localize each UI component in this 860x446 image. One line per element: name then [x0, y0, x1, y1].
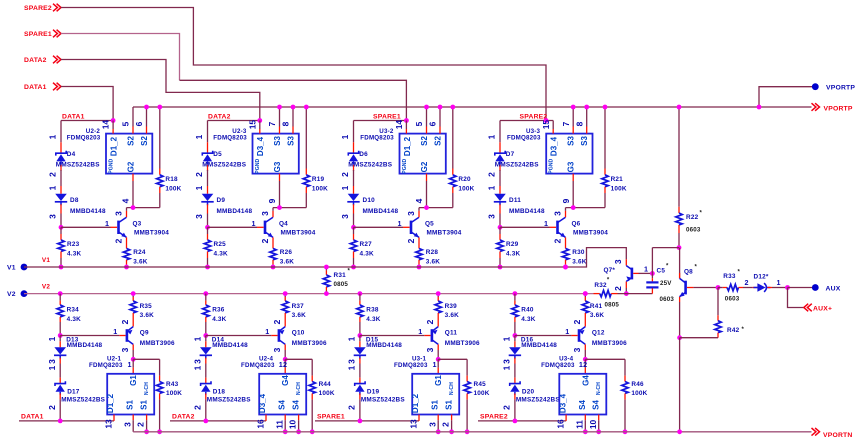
svg-text:3: 3 — [47, 359, 57, 364]
junction AUX node — [785, 285, 790, 290]
svg-text:Q5: Q5 — [425, 220, 434, 227]
svg-text:PGND: PGND — [255, 158, 261, 173]
junction gate node — [571, 205, 576, 210]
wire base (bottom) — [571, 335, 577, 337]
pin 9 of U2-3 (G) — [279, 174, 281, 208]
svg-text:4.3K: 4.3K — [506, 250, 520, 257]
svg-text:R28: R28 — [426, 249, 439, 256]
resistor R30 3.6K — [562, 237, 568, 267]
resistor R39 3.6K — [435, 294, 441, 327]
svg-text:1: 1 — [193, 336, 203, 341]
wire V1 step to Q7 collector — [566, 248, 627, 267]
junction gate node (bottom) — [283, 357, 288, 362]
svg-text:D9: D9 — [217, 197, 226, 204]
svg-text:AUX+: AUX+ — [813, 306, 832, 313]
svg-text:DATA1: DATA1 — [62, 113, 85, 120]
svg-text:*: * — [700, 211, 703, 217]
resistor R19 100K — [303, 107, 309, 208]
wire VPORTP riser to port dot — [759, 87, 815, 107]
junction bottom net/rail — [513, 419, 518, 424]
svg-text:S2: S2 — [140, 136, 149, 146]
svg-text:S2: S2 — [420, 136, 429, 146]
junction VPORTN bus/S pin — [583, 429, 588, 434]
junction V1 rail (emitter leg) — [417, 265, 422, 270]
svg-text:MMSZ5242BS: MMSZ5242BS — [56, 162, 100, 169]
svg-text:3: 3 — [502, 359, 512, 364]
junction bottom net/rail — [358, 419, 363, 424]
pin 16 of U2-4 (D) — [265, 415, 267, 421]
svg-text:4.3K: 4.3K — [67, 316, 81, 323]
svg-text:MMBD4148: MMBD4148 — [70, 208, 106, 215]
transistor Q10 (MMBT3906 PNP) — [279, 327, 285, 345]
junction emitter/R42 — [677, 335, 682, 340]
junction Q7 emitter/V2 — [624, 291, 629, 296]
svg-text:PGND: PGND — [108, 158, 114, 173]
svg-text:FDMQ8203: FDMQ8203 — [213, 135, 247, 142]
svg-text:R27: R27 — [360, 241, 373, 248]
svg-text:13: 13 — [408, 419, 418, 429]
svg-text:2: 2 — [136, 422, 146, 427]
svg-text:2: 2 — [340, 172, 350, 177]
transistor Q3 (MMBT3904 NPN) — [119, 217, 127, 237]
junction V1 rail (emitter leg) — [124, 265, 129, 270]
svg-text:R43: R43 — [166, 381, 179, 388]
wire Q7 base to C5 node — [633, 272, 638, 274]
junction bus/100K — [603, 105, 608, 110]
wire rail upper segment — [499, 121, 501, 143]
junction bus/S pin 2 — [584, 105, 589, 110]
svg-text:2: 2 — [194, 172, 204, 177]
svg-text:1: 1 — [502, 336, 512, 341]
svg-text:R34: R34 — [67, 307, 80, 314]
junction gate node (bottom) — [436, 357, 441, 362]
svg-text:1: 1 — [347, 365, 357, 370]
wire base — [354, 226, 404, 228]
zener diode D5 (MMSZ5242BS) — [202, 142, 212, 171]
svg-text:MMBT3904: MMBT3904 — [281, 230, 316, 237]
svg-text:*: * — [695, 265, 698, 271]
junction V2/4.3K — [58, 291, 63, 296]
svg-text:2: 2 — [260, 238, 270, 243]
svg-text:MMBD4148: MMBD4148 — [217, 208, 253, 215]
svg-text:R42: R42 — [727, 327, 740, 334]
junction gate node — [131, 205, 136, 210]
junction V2/3.6K — [583, 291, 588, 296]
wire gate node horizontal (bottom) — [133, 358, 159, 360]
pin 6 of U3-2 (S) — [439, 107, 441, 134]
svg-text:G1: G1 — [129, 375, 138, 386]
svg-text:1: 1 — [777, 278, 781, 287]
svg-text:MMBD4148: MMBD4148 — [509, 208, 545, 215]
junction bottom net/rail — [203, 419, 208, 424]
wire bottom net — [19, 420, 114, 422]
svg-text:R44: R44 — [319, 381, 332, 388]
wire gate node — [127, 207, 160, 209]
svg-text:1: 1 — [194, 134, 204, 139]
zener diode D4 (MMSZ5242BS) — [56, 142, 66, 171]
wire rail between diodes (bottom) — [59, 364, 61, 378]
svg-text:G2: G2 — [126, 161, 135, 172]
pin 10 of U3-4 (S) — [598, 415, 600, 432]
svg-text:MMBT3904: MMBT3904 — [134, 230, 169, 237]
junction feed — [257, 118, 262, 123]
svg-text:S3: S3 — [286, 136, 295, 146]
svg-text:R33: R33 — [723, 273, 736, 280]
svg-text:R20: R20 — [458, 176, 471, 183]
wire Q8 base to R33 node — [693, 287, 718, 289]
svg-text:D6: D6 — [359, 151, 368, 158]
diode D8 (MMBD4148) — [55, 186, 67, 214]
svg-text:1: 1 — [265, 327, 269, 336]
wire bottom net — [315, 420, 419, 422]
diode D13 (MMBD4148) — [54, 336, 66, 364]
wire collector to gate node (bottom) — [132, 344, 134, 350]
capacitor C5 25V 0603 — [646, 248, 658, 294]
svg-text:4.3K: 4.3K — [521, 316, 535, 323]
svg-text:2: 2 — [487, 172, 497, 177]
svg-text:3: 3 — [340, 214, 350, 219]
transistor Q5 (MMBT3904 NPN) — [411, 217, 419, 237]
wire rail to base junction — [353, 214, 355, 228]
junction bus/100K — [450, 105, 455, 110]
resistor R28 3.6K — [416, 237, 422, 267]
svg-text:R32: R32 — [594, 282, 607, 289]
IC U3-3 (FDMQ8203) — [546, 134, 592, 174]
wire net to pin — [500, 120, 553, 122]
junction VPORTN bus/100K — [465, 429, 470, 434]
wire collector to node — [418, 211, 420, 217]
svg-text:D11: D11 — [509, 197, 521, 204]
svg-text:DATA2: DATA2 — [172, 414, 195, 421]
svg-text:2: 2 — [552, 238, 562, 243]
svg-text:R29: R29 — [506, 241, 519, 248]
svg-text:2: 2 — [272, 319, 282, 324]
svg-text:6: 6 — [134, 121, 144, 126]
junction V1 rail — [498, 265, 503, 270]
wire rail to base junction — [207, 214, 209, 228]
wire gate node — [419, 207, 453, 209]
diode D12 — [753, 283, 788, 292]
svg-text:0603: 0603 — [660, 296, 675, 303]
svg-text:7: 7 — [267, 121, 277, 126]
svg-text:MMSZ5242BS: MMSZ5242BS — [361, 396, 405, 403]
wire Q7 emitter to V2 node — [625, 288, 627, 294]
svg-text:4.3K: 4.3K — [366, 316, 380, 323]
svg-text:*: * — [348, 269, 351, 275]
wire rail between diodes (bottom) — [205, 364, 207, 378]
wire rail upper segment — [60, 121, 62, 143]
svg-text:S4: S4 — [591, 400, 600, 410]
wire rail between diodes (bottom) — [359, 364, 361, 378]
junction feed — [544, 118, 549, 123]
svg-text:3.6K: 3.6K — [572, 258, 586, 265]
svg-text:N-CH: N-CH — [596, 382, 602, 395]
wire gate node horizontal (bottom) — [285, 358, 312, 360]
svg-text:D20: D20 — [522, 389, 535, 396]
svg-text:SPARE2: SPARE2 — [520, 113, 548, 120]
resistor R45 100K — [464, 359, 470, 432]
svg-text:1: 1 — [644, 265, 648, 274]
svg-text:MMBD4148: MMBD4148 — [363, 208, 399, 215]
transistor Q9 (MMBT3906 PNP) — [127, 327, 133, 345]
port V1 (blue dot) — [21, 264, 28, 271]
wire rail to base junction — [499, 214, 501, 228]
port AUX+ (red) — [804, 304, 812, 312]
svg-text:9: 9 — [561, 198, 571, 203]
svg-text:D3_4: D3_4 — [550, 136, 559, 156]
transistor Q12 (MMBT3906 PNP) — [579, 327, 585, 345]
svg-text:11: 11 — [274, 420, 284, 429]
junction base node — [205, 225, 210, 230]
svg-text:4.3K: 4.3K — [212, 316, 226, 323]
junction gate node — [424, 205, 429, 210]
svg-text:D10: D10 — [363, 197, 376, 204]
junction V2/4.3K — [358, 291, 363, 296]
svg-text:MMBT3906: MMBT3906 — [445, 340, 480, 347]
junction bus/S pin — [424, 105, 429, 110]
svg-text:10: 10 — [288, 420, 298, 430]
junction bus/S pin — [277, 105, 282, 110]
junction R31/V2 — [324, 291, 329, 296]
svg-text:0805: 0805 — [334, 281, 349, 288]
svg-text:3.6K: 3.6K — [292, 312, 306, 319]
wire bottom net — [478, 420, 566, 422]
port VPORTP (red arrow) — [812, 103, 820, 111]
IC U3-2 (FDMQ8203) — [400, 134, 446, 174]
svg-text:S4: S4 — [278, 400, 287, 410]
svg-text:VPORTN: VPORTN — [823, 432, 853, 439]
svg-text:3.6K: 3.6K — [133, 258, 147, 265]
pin 11 of U2-4 (S) — [284, 415, 286, 432]
transistor Q7 (PNP) — [625, 259, 627, 288]
pin 2 of U3-1 (S) — [451, 415, 453, 432]
junction feed — [404, 118, 409, 123]
svg-text:D5: D5 — [213, 151, 222, 158]
wire collector to node — [565, 211, 567, 217]
zener diode D20 (MMSZ5242BS) — [510, 378, 520, 421]
svg-text:1: 1 — [48, 185, 58, 190]
wire base (bottom) — [119, 335, 125, 337]
wire net to pin — [61, 120, 113, 122]
svg-text:14: 14 — [101, 120, 111, 130]
svg-text:D1_2: D1_2 — [106, 393, 115, 413]
svg-text:R24: R24 — [133, 249, 146, 256]
pin 9 of U3-3 (G) — [572, 174, 574, 208]
wire emitter to VPORTN bus — [679, 338, 681, 432]
svg-text:N-CH: N-CH — [449, 382, 455, 395]
diode D9 (MMBD4148) — [201, 186, 213, 214]
svg-text:1: 1 — [48, 134, 58, 139]
svg-text:2: 2 — [613, 286, 623, 291]
svg-text:3: 3 — [425, 347, 435, 352]
svg-text:3: 3 — [347, 359, 357, 364]
svg-text:13: 13 — [103, 419, 113, 429]
svg-text:MMSZ5242BS: MMSZ5242BS — [348, 162, 392, 169]
svg-text:D17: D17 — [67, 389, 80, 396]
svg-text:3.6K: 3.6K — [140, 312, 154, 319]
svg-text:1: 1 — [418, 327, 422, 336]
svg-text:0805: 0805 — [605, 301, 620, 308]
junction VPORTN bus/100K — [157, 429, 162, 434]
svg-text:16: 16 — [255, 419, 265, 429]
junction bus/S pin 2 — [291, 105, 296, 110]
svg-text:1: 1 — [252, 219, 256, 228]
svg-text:Q11: Q11 — [445, 330, 458, 337]
diode D14 (MMBD4148) — [200, 336, 212, 364]
svg-text:MMBT3906: MMBT3906 — [140, 340, 175, 347]
port AUX (blue dot) — [788, 287, 815, 289]
svg-text:G3: G3 — [273, 161, 282, 172]
wire net to pin — [354, 120, 407, 122]
junction bus/S pin — [571, 105, 576, 110]
svg-text:1: 1 — [127, 360, 131, 369]
pin 4 of U3-2 (G) — [426, 174, 428, 208]
svg-text:3: 3 — [122, 422, 132, 427]
svg-text:MMSZ5242BS: MMSZ5242BS — [61, 396, 105, 403]
junction V2/R41 — [583, 291, 588, 296]
junction base node (bottom) — [513, 333, 518, 338]
svg-text:V2: V2 — [7, 291, 16, 298]
resistor R24 3.6K — [123, 237, 129, 267]
svg-text:2: 2 — [745, 278, 749, 287]
zener diode D7 (MMSZ5242BS) — [495, 142, 505, 171]
wire rail upper segment — [207, 121, 209, 143]
junction R31/V1 — [324, 265, 329, 270]
svg-text:FDMQ8203: FDMQ8203 — [507, 135, 541, 142]
svg-text:2: 2 — [572, 319, 582, 324]
pin 7 of U2-3 (S) — [279, 107, 281, 134]
svg-text:PGND: PGND — [402, 158, 408, 173]
junction bottom net/rail — [58, 419, 63, 424]
svg-text:2: 2 — [502, 405, 512, 410]
wire collector to node — [126, 211, 128, 217]
svg-text:D3_4: D3_4 — [258, 393, 267, 413]
svg-text:3: 3 — [48, 214, 58, 219]
svg-text:15: 15 — [247, 120, 257, 130]
junction base node (bottom) — [358, 333, 363, 338]
svg-text:R35: R35 — [140, 303, 153, 310]
svg-text:R39: R39 — [445, 303, 458, 310]
svg-text:100K: 100K — [319, 390, 335, 397]
wire gate node — [273, 207, 306, 209]
pin 6 of U2-2 (S) — [146, 107, 148, 134]
svg-text:N-CH: N-CH — [144, 382, 150, 395]
pin 8 of U2-3 (S) — [292, 107, 294, 134]
resistor R23 4.3K — [58, 227, 64, 267]
junction bus/S pin 2 — [144, 105, 149, 110]
wire SPARE2 net (top run) — [61, 8, 546, 121]
junction VPORTN bus/S pin — [436, 429, 441, 434]
svg-text:10: 10 — [588, 420, 598, 430]
svg-text:5: 5 — [414, 121, 424, 126]
pin 4 of U2-2 (G) — [132, 174, 134, 208]
port V2 (blue dot) — [21, 290, 28, 297]
pin 13 of U2-1 (D) — [113, 415, 115, 421]
svg-text:MMSZ5242BS: MMSZ5242BS — [207, 396, 251, 403]
svg-text:S1: S1 — [126, 400, 135, 410]
svg-text:8: 8 — [281, 121, 291, 126]
svg-text:2: 2 — [47, 405, 57, 410]
svg-text:*: * — [742, 327, 745, 333]
svg-text:0603: 0603 — [686, 226, 701, 233]
wire collector to node — [272, 211, 274, 217]
svg-text:1: 1 — [340, 185, 350, 190]
wire gate node — [566, 207, 606, 209]
svg-text:DATA1: DATA1 — [24, 84, 47, 91]
junction VPORTN bus/S pin — [283, 429, 288, 434]
transistor Q11 (MMBT3906 PNP) — [432, 327, 438, 345]
svg-text:G4: G4 — [581, 375, 590, 386]
wire V1 rail — [24, 266, 566, 268]
svg-text:3.6K: 3.6K — [445, 312, 459, 319]
svg-text:2: 2 — [406, 238, 416, 243]
diode D10 (MMBD4148) — [347, 186, 359, 214]
transistor Q6 (MMBT3904 NPN) — [558, 217, 566, 237]
junction base node — [351, 225, 356, 230]
wire gate bus (S-pins / VPORTP net) — [133, 106, 812, 108]
pin 3 of U3-1 (S) — [437, 415, 439, 432]
svg-text:D19: D19 — [367, 389, 380, 396]
svg-text:3.6K: 3.6K — [426, 258, 440, 265]
svg-text:1: 1 — [193, 365, 203, 370]
svg-text:1: 1 — [432, 360, 436, 369]
wire DATA1 net (to block 1) — [61, 87, 113, 121]
svg-text:100K: 100K — [312, 186, 328, 193]
svg-text:S1: S1 — [444, 400, 453, 410]
svg-text:6: 6 — [428, 121, 438, 126]
junction VPORTN bus/S pin 2 — [296, 429, 301, 434]
svg-text:3: 3 — [260, 211, 270, 216]
svg-text:1: 1 — [47, 336, 57, 341]
svg-text:100K: 100K — [611, 186, 627, 193]
svg-text:G1: G1 — [434, 375, 443, 386]
resistor R18 100K — [157, 107, 163, 208]
svg-text:*: * — [666, 264, 669, 270]
svg-text:MMBD4148: MMBD4148 — [212, 342, 248, 349]
svg-text:D8: D8 — [70, 197, 79, 204]
svg-text:Q6: Q6 — [572, 220, 581, 227]
svg-text:3: 3 — [613, 259, 623, 264]
wire DATA2 net (to block 2) — [61, 60, 260, 121]
svg-text:*: * — [607, 278, 610, 284]
junction R22/C5 node — [677, 245, 682, 250]
svg-text:1: 1 — [47, 365, 57, 370]
svg-text:G4: G4 — [281, 375, 290, 386]
junction gate node — [277, 205, 282, 210]
IC U2-3 (FDMQ8203) — [253, 134, 299, 174]
wire base — [500, 226, 550, 228]
IC U3-1 (FDMQ8203) — [412, 374, 459, 415]
svg-text:S3: S3 — [567, 136, 576, 146]
resistor R46 100K — [622, 359, 628, 432]
svg-text:1: 1 — [398, 219, 402, 228]
junction V1 rail (emitter leg) — [271, 265, 276, 270]
svg-text:R37: R37 — [292, 303, 305, 310]
svg-text:VPORTP: VPORTP — [824, 105, 853, 112]
svg-text:Q9: Q9 — [140, 330, 149, 337]
svg-text:S1: S1 — [431, 400, 440, 410]
pin 15 of U2-3 — [259, 121, 261, 134]
junction V2/3.6K — [283, 291, 288, 296]
wire base — [208, 226, 258, 228]
svg-text:R21: R21 — [611, 176, 624, 183]
svg-text:MMBT3904: MMBT3904 — [573, 230, 608, 237]
resistor R26 3.6K — [270, 237, 276, 267]
svg-text:3: 3 — [193, 359, 203, 364]
svg-text:SPARE2: SPARE2 — [24, 5, 52, 12]
svg-text:0603: 0603 — [725, 295, 740, 302]
svg-text:S2: S2 — [126, 136, 135, 146]
